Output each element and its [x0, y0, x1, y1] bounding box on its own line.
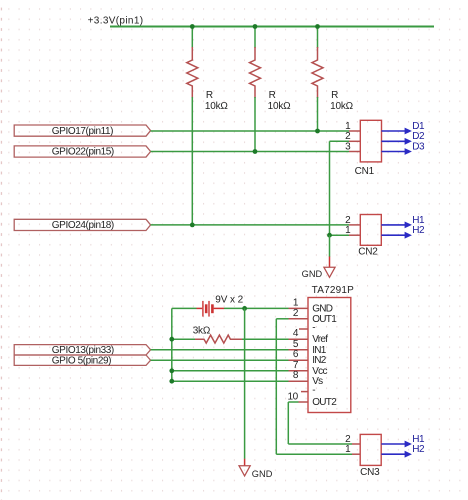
- output arrow D1: [381, 121, 425, 135]
- svg-text:-: -: [312, 323, 315, 334]
- wire OUT2 to CN3 pin2: [288, 443, 352, 445]
- net flag GPIO22(pin15): [14, 146, 150, 158]
- CN1 pin number 2: [345, 131, 351, 142]
- U1 pin 9 (-): [301, 385, 315, 396]
- U1 pin 10 (OUT2): [287, 392, 337, 408]
- CN2 pin 2 stub: [349, 224, 360, 226]
- wire battery junction to GND: [244, 308, 246, 459]
- U1 pin 7 (Vcc): [289, 360, 328, 377]
- svg-text:CN1: CN1: [355, 166, 375, 177]
- svg-text:Vref: Vref: [312, 334, 328, 345]
- wire 3k to Vref: [242, 338, 289, 340]
- CN3 pin 1 stub: [352, 453, 360, 455]
- label GND (CN2 net): [302, 269, 323, 279]
- wire CN1 pin2 to vertical: [330, 140, 350, 142]
- junction rail-R1: [190, 24, 195, 29]
- resistor R1 (10k): [187, 47, 198, 98]
- svg-text:R: R: [206, 90, 213, 101]
- resistor R4 (3k): [195, 335, 242, 343]
- CN3 pin 2 stub: [352, 443, 360, 445]
- wire OUT1 to CN3 pin1: [276, 453, 352, 455]
- power net label +3.3V(pin1): [88, 16, 144, 27]
- label R4 value 3k: [193, 326, 211, 337]
- label battery value 9V x 2: [215, 294, 243, 305]
- connector CN3 body: [360, 434, 381, 465]
- svg-text:3kΩ: 3kΩ: [193, 326, 211, 337]
- battery BT1 plates: [197, 301, 225, 317]
- label R1 ref R: [206, 90, 213, 101]
- connector CN1 body: [360, 120, 381, 162]
- wire OUT1 left: [276, 318, 288, 320]
- svg-text:2: 2: [293, 308, 299, 319]
- svg-text:Vcc: Vcc: [312, 366, 327, 377]
- wire GPIO13 to IN1: [151, 349, 289, 351]
- svg-text:GND: GND: [302, 269, 323, 279]
- net flag GPIO24(pin18): [14, 219, 150, 231]
- wire R3 bottom lead: [317, 97, 319, 131]
- connector CN2 body: [360, 215, 381, 246]
- junction battery-GND net: [242, 306, 247, 311]
- wire supply vertical: [171, 308, 173, 381]
- svg-text:R: R: [269, 90, 276, 101]
- wire GPIO24 to CN2 pin2: [151, 224, 349, 226]
- wire OUT2 vertical: [287, 402, 289, 444]
- svg-text:GPIO22(pin15): GPIO22(pin15): [52, 147, 114, 158]
- wire R1 top lead: [191, 27, 193, 49]
- CN3 pin number 1: [345, 444, 351, 455]
- svg-text:GPIO24(pin18): GPIO24(pin18): [52, 220, 114, 231]
- resistor R2 (10k): [250, 47, 261, 98]
- svg-text:10kΩ: 10kΩ: [268, 101, 292, 112]
- junction CN2 pin1 node: [327, 233, 332, 238]
- wire gnd-net vertical: [329, 141, 331, 235]
- wire CN2 pin1 down to GND: [329, 235, 331, 257]
- junction supply-3k: [169, 337, 174, 342]
- junction rail-R2: [253, 24, 258, 29]
- wire supply to Vcc: [172, 370, 289, 372]
- svg-text:D3: D3: [412, 141, 425, 152]
- net flag GPIO13(pin33): [14, 345, 150, 356]
- CN1 pin 2 stub: [349, 140, 360, 142]
- output arrow H1 (CN2): [381, 215, 425, 229]
- svg-text:R: R: [331, 90, 338, 101]
- wire battery left lead: [172, 307, 197, 309]
- svg-text:10: 10: [287, 392, 298, 403]
- svg-text:1: 1: [293, 297, 299, 308]
- svg-text:GND: GND: [252, 469, 273, 479]
- wire R2 top lead: [254, 27, 256, 49]
- wire GPIO22 to CN1 pin3: [151, 151, 349, 153]
- CN2 pin 1 stub: [349, 234, 360, 236]
- CN2 pin number 1: [345, 225, 351, 236]
- svg-text:IN1: IN1: [312, 345, 327, 356]
- svg-text:CN3: CN3: [360, 467, 380, 478]
- svg-text:GND: GND: [312, 303, 333, 314]
- output arrow H2 (CN3): [381, 444, 425, 458]
- wire battery right to U1 pin1: [224, 307, 289, 309]
- wire GPIO5 to IN2: [151, 359, 289, 361]
- svg-text:GPIO17(pin11): GPIO17(pin11): [52, 126, 113, 137]
- output arrow H2 (CN2): [381, 225, 425, 239]
- motor driver U1 TA7291P body: [308, 298, 351, 413]
- label GND (battery net): [252, 469, 273, 479]
- net flag GPIO 5(pin29): [14, 355, 150, 366]
- svg-text:6: 6: [293, 349, 299, 360]
- output arrow D3: [381, 141, 425, 155]
- svg-text:5: 5: [293, 339, 299, 350]
- junction supply-Vcc: [169, 368, 174, 373]
- wire supply to Vs: [172, 380, 289, 382]
- junction GPIO24-R1: [190, 223, 195, 228]
- net flag GPIO17(pin11): [14, 125, 150, 137]
- svg-text:7: 7: [293, 360, 299, 371]
- label U1 TA7291P: [312, 285, 354, 296]
- wire R3 top lead: [317, 27, 319, 49]
- junction supply-Vs: [169, 379, 174, 384]
- svg-text:1: 1: [345, 225, 351, 236]
- label CN2: [358, 247, 378, 258]
- U1 pin 5 (IN1): [289, 339, 327, 356]
- ground symbol (battery net): [239, 459, 250, 476]
- svg-text:+3.3V(pin1): +3.3V(pin1): [88, 16, 144, 27]
- U1 pin 6 (IN2): [289, 349, 327, 366]
- svg-text:H2: H2: [412, 444, 425, 455]
- CN1 pin number 3: [345, 141, 351, 152]
- svg-text:H2: H2: [412, 225, 425, 236]
- svg-text:OUT2: OUT2: [312, 397, 337, 408]
- CN1 pin 1 stub: [349, 130, 360, 132]
- U1 pin 4 (Vref): [289, 328, 329, 345]
- U1 pin 1 (GND): [289, 297, 333, 314]
- label R3 ref R: [331, 90, 338, 101]
- label R2 ref R: [269, 90, 276, 101]
- svg-text:GPIO 5(pin29): GPIO 5(pin29): [52, 355, 111, 366]
- svg-text:4: 4: [293, 328, 299, 339]
- svg-text:CN2: CN2: [358, 247, 378, 258]
- wire R1 bottom lead: [191, 97, 193, 225]
- output arrow D2: [381, 131, 425, 145]
- wire OUT1 vertical: [275, 319, 277, 454]
- CN3 pin number 2: [345, 434, 351, 445]
- wire OUT2 left: [288, 401, 298, 403]
- svg-text:1: 1: [345, 444, 351, 455]
- label R1 value 10k: [205, 101, 229, 112]
- svg-text:IN2: IN2: [312, 355, 327, 366]
- U1 pin 2 (OUT1): [289, 308, 338, 325]
- ground symbol (CN2 net): [324, 257, 335, 278]
- junction GPIO22-R2: [253, 149, 258, 154]
- svg-text:OUT1: OUT1: [312, 314, 337, 325]
- CN1 pin 3 stub: [349, 151, 360, 153]
- wire +3.3V rail: [110, 26, 434, 28]
- svg-text:10kΩ: 10kΩ: [205, 101, 229, 112]
- CN2 pin number 2: [345, 215, 351, 226]
- label CN1: [355, 166, 375, 177]
- U1 pin 8 (Vs): [289, 370, 324, 387]
- svg-text:3: 3: [345, 141, 351, 152]
- resistor R3 (10k): [312, 47, 323, 98]
- junction rail-R3: [315, 24, 320, 29]
- svg-text:-: -: [312, 385, 315, 396]
- label CN3: [360, 467, 380, 478]
- wire 3k left lead: [172, 338, 196, 340]
- wire GPIO17 to CN1 pin1: [151, 130, 349, 132]
- wire R2 bottom lead: [254, 97, 256, 152]
- label R2 value 10k: [268, 101, 292, 112]
- wire CN2 pin1 horizontal: [330, 234, 350, 236]
- junction GPIO17-R3: [315, 129, 320, 134]
- label R3 value 10k: [330, 101, 354, 112]
- svg-text:9V x 2: 9V x 2: [215, 294, 243, 305]
- U1 pin 3 (-): [299, 323, 315, 334]
- svg-text:10kΩ: 10kΩ: [330, 101, 354, 112]
- output arrow H1 (CN3): [381, 434, 425, 448]
- CN1 pin number 1: [345, 121, 351, 132]
- svg-text:TA7291P: TA7291P: [312, 285, 354, 296]
- svg-text:8: 8: [293, 370, 299, 381]
